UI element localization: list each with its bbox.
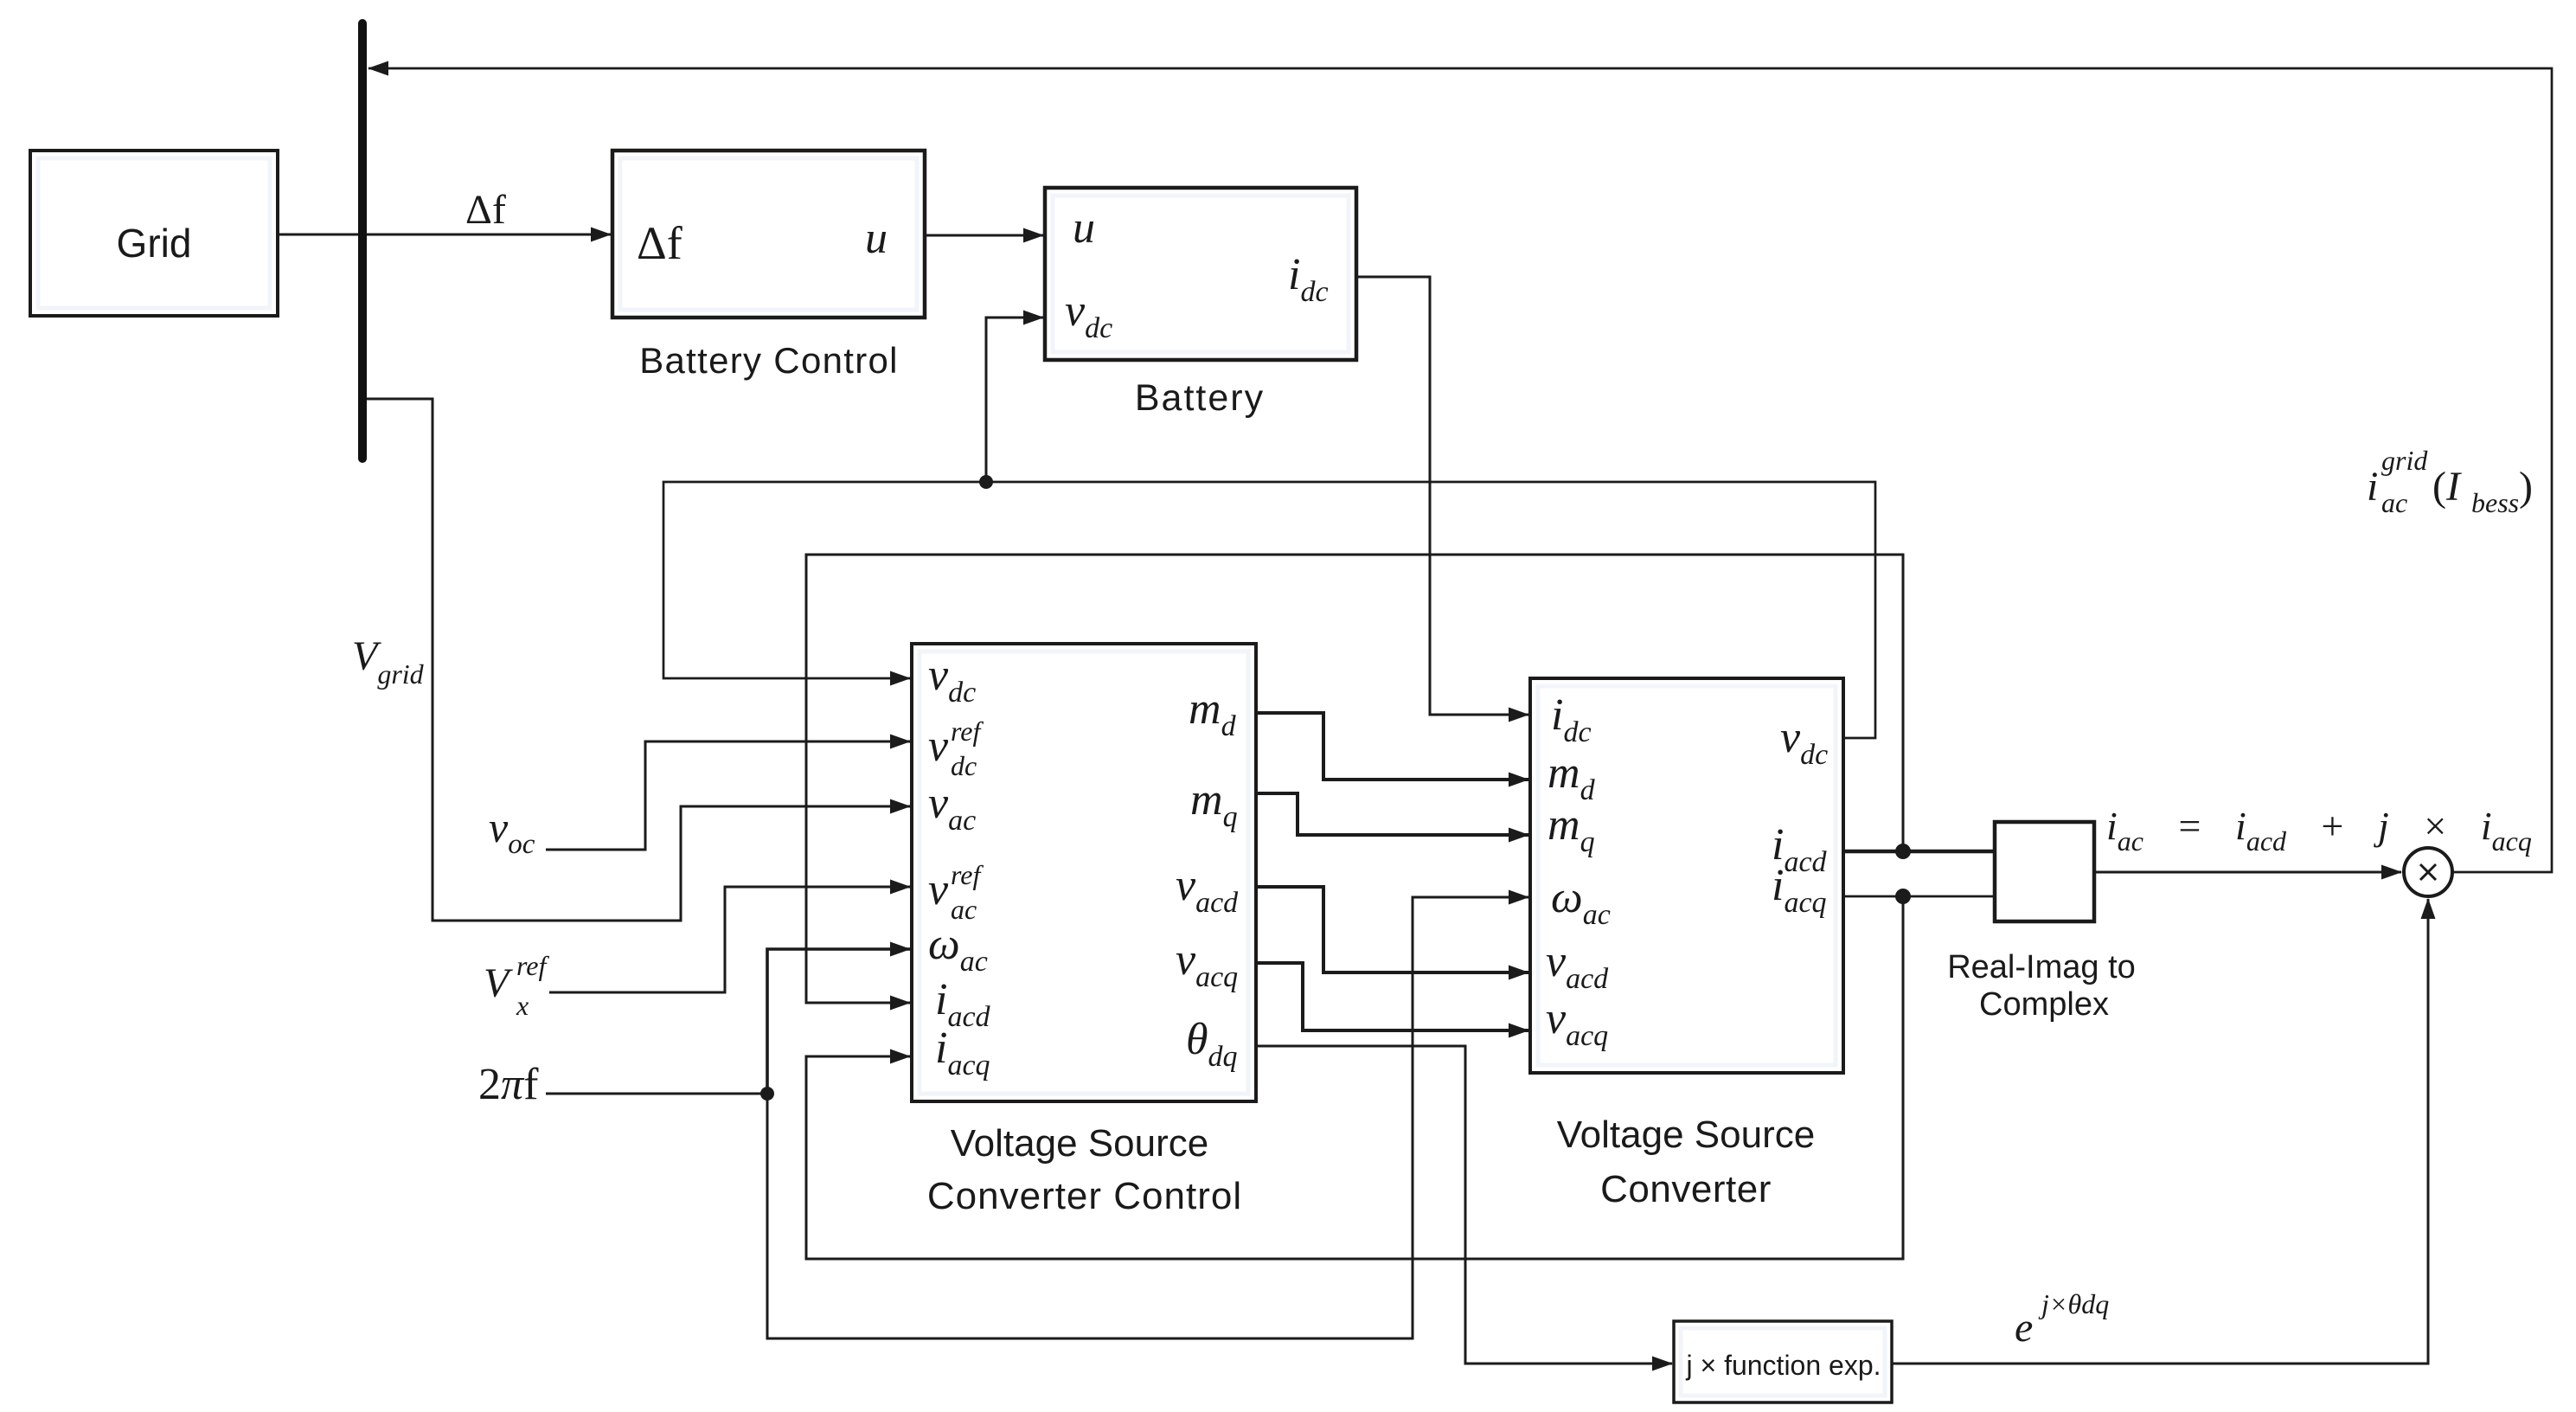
wire: VSC i_acd output to Real-Imag block (bold) [1843, 850, 1995, 854]
block Real-Imag to Complex [1995, 822, 2094, 921]
svg-text:Δf: Δf [637, 217, 682, 269]
svg-text:bess: bess [2471, 487, 2519, 518]
wire: v_oc to VSCC v_dc_ref input [546, 741, 910, 850]
wire: junction down and around to VSC ω_ac input [767, 897, 1528, 1338]
svg-text:j×θdq: j×θdq [2038, 1288, 2109, 1319]
block Voltage Source Converter [1530, 678, 1843, 1073]
wire: junction up to VSCC ω_ac input [767, 949, 910, 1094]
wire: V_grid from bus to VSCC v_ac input [366, 399, 910, 921]
wire: m_d staircase VSCC to VSC [1256, 713, 1528, 780]
block Voltage Source Converter Control [912, 644, 1256, 1101]
block Battery [1045, 188, 1356, 360]
node: v_dc junction [979, 475, 993, 489]
svg-text:Voltage Source: Voltage Source [1557, 1114, 1815, 1156]
BLOCKS [30, 151, 2094, 1402]
wire: 2πf to junction [546, 1093, 767, 1095]
svg-text:dc: dc [951, 750, 977, 781]
svg-text:V: V [484, 960, 513, 1006]
wire: Real-Imag output to multiplier [2094, 871, 2401, 874]
wire: j-times-function-exp output up to multiplier [1892, 899, 2428, 1364]
svg-text:j × function exp.: j × function exp. [1685, 1350, 1881, 1381]
svg-text:ref: ref [516, 950, 549, 981]
svg-text:2πf: 2πf [478, 1060, 539, 1109]
block Battery Control [612, 151, 925, 318]
wire: long v_dc distribution line (VSC v_dc out, up, left, down to VSCC v_dc in) [663, 482, 1875, 738]
svg-text:ref: ref [951, 859, 984, 890]
svg-text:Grid: Grid [117, 221, 192, 266]
svg-text:Δf: Δf [465, 187, 506, 233]
bus bar [358, 23, 367, 459]
block j × function exp. [1674, 1321, 1892, 1402]
node: i_acq junction [1895, 889, 1911, 904]
svg-text:Converter Control: Converter Control [927, 1175, 1242, 1217]
wire: v_dc branch up to Battery v_dc input [986, 318, 1043, 482]
svg-text:x: x [516, 990, 529, 1021]
svg-text:Voltage Source: Voltage Source [951, 1122, 1208, 1165]
svg-text:v: v [928, 722, 949, 771]
svg-text:Complex: Complex [1979, 986, 2109, 1023]
svg-text:Real-Imag to: Real-Imag to [1947, 949, 2136, 985]
svg-text:grid: grid [2381, 445, 2428, 476]
svg-text:ref: ref [951, 716, 984, 747]
svg-text:): ) [2519, 464, 2533, 510]
svg-text:Converter: Converter [1600, 1168, 1772, 1210]
wire: i_acq feedback (VSC out, down, left, up to VSCC i_acq in) [806, 896, 1903, 1259]
svg-text:Battery Control: Battery Control [639, 340, 899, 381]
wire: Battery Control u output to Battery u input [925, 234, 1043, 237]
svg-text:u: u [1073, 203, 1095, 253]
svg-text:(I: (I [2432, 464, 2462, 510]
block Grid [30, 151, 278, 316]
svg-text:ac: ac [2381, 487, 2407, 518]
wire: m_q staircase VSCC to VSC [1256, 793, 1528, 835]
wire: v_acq staircase VSCC to VSC [1256, 963, 1528, 1030]
wire: i_acd feedback (VSC out, up, left, down to VSCC i_acd in) [806, 555, 1903, 1003]
svg-text:i: i [2367, 464, 2378, 510]
wire: θ_dq output to j-times-function-exp box [1256, 1046, 1672, 1364]
wire: top feedback from multiplier to bus [368, 68, 2552, 872]
subtle inner rims of blocks [38, 158, 1885, 1396]
wire: Battery i_dc output down to VSC i_dc input [1356, 277, 1528, 715]
multiplier circle [2404, 848, 2452, 896]
node: i_acd junction [1895, 844, 1911, 859]
svg-text:u: u [865, 214, 888, 263]
node: 2πf junction [760, 1087, 774, 1101]
wire: grid to bus, bus to Battery Control (Δf signal) [278, 234, 611, 236]
wire: V_x_ref to VSCC v_ac_ref input [549, 887, 910, 992]
svg-text:v: v [928, 865, 949, 915]
wire: v_acd staircase VSCC to VSC [1256, 887, 1528, 972]
svg-text:Battery: Battery [1135, 377, 1265, 419]
svg-text:e: e [2015, 1305, 2033, 1351]
wire: VSC i_acq output to Real-Imag block [1843, 895, 1995, 898]
